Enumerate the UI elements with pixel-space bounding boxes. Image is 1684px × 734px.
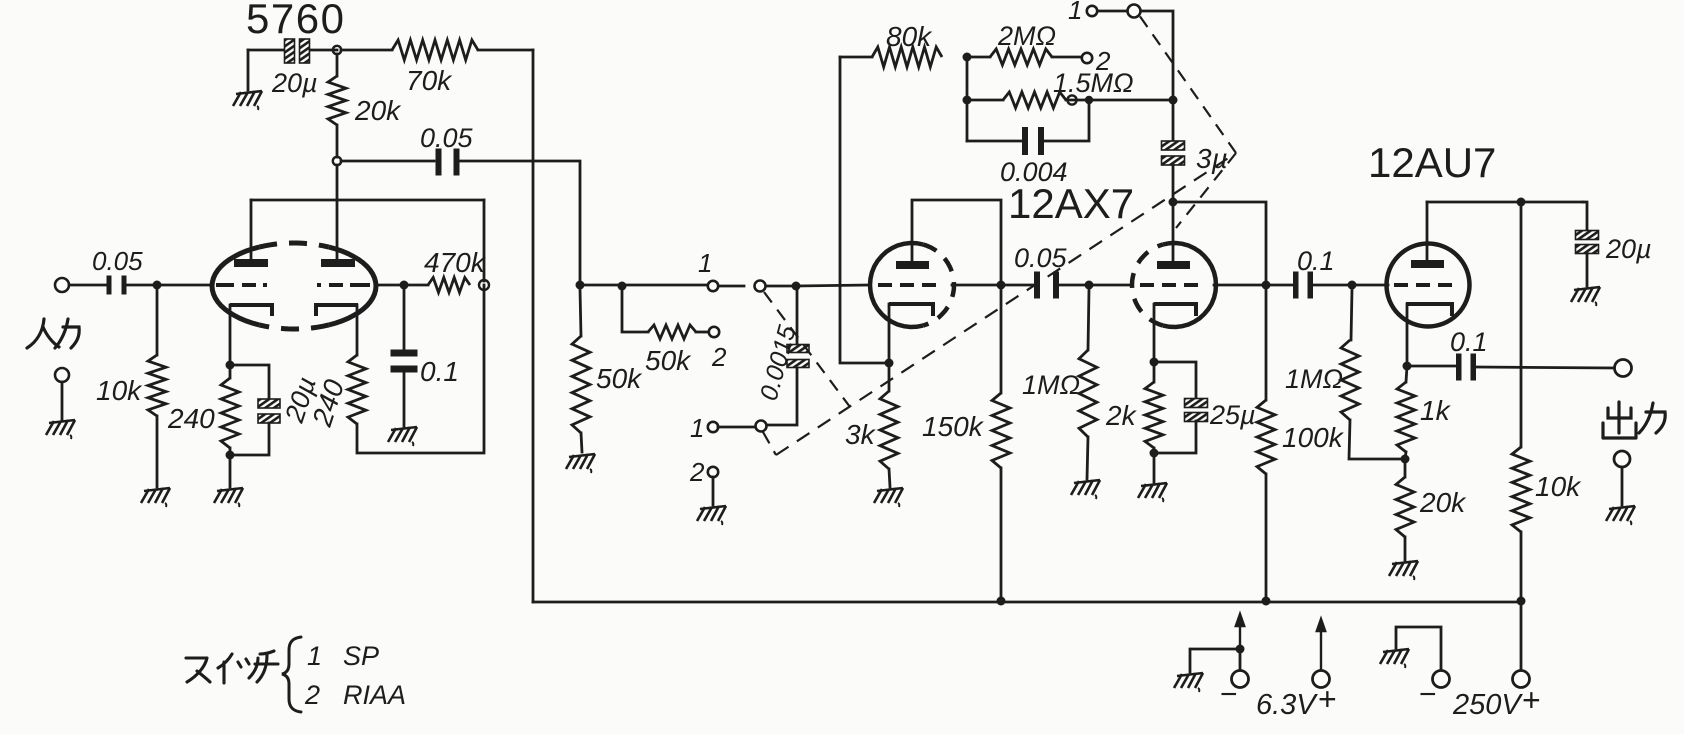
- label minus 6.3V: [1220, 678, 1238, 711]
- tube 12AX7-2 cathode: [1154, 304, 1196, 316]
- label legend 2: [304, 680, 320, 710]
- wire grid into 12AX7-1: [796, 285, 868, 286]
- wire 1M-1 bottom lead: [1087, 437, 1088, 479]
- resistor 50k (series, pos 2): [648, 325, 696, 339]
- capacitor C 0.05 (interstage): [1034, 272, 1059, 299]
- label 10k-2 value: [1535, 471, 1582, 502]
- svg-text:80k: 80k: [886, 21, 933, 52]
- switch contact upper pos 2: [709, 327, 719, 337]
- wire 0.004 left link: [967, 140, 1021, 143]
- wire 0.004 right link: [1045, 104, 1089, 141]
- label 0.0015 value: [755, 322, 802, 403]
- tube 5760 grid 2: [317, 283, 370, 287]
- node N8 grid2 node: [400, 281, 409, 290]
- svg-text:6.3V: 6.3V: [1256, 689, 1318, 721]
- label 2 (feedback): [1095, 46, 1111, 76]
- terminal output jack signal: [1615, 360, 1632, 377]
- tube 5760 envelope: [212, 243, 376, 329]
- wire stage1 plate link (box top): [251, 199, 484, 202]
- label 1.5M value: [1053, 68, 1134, 98]
- wire grid into 12AX7-2: [1089, 284, 1130, 287]
- resistor 2k: [1145, 382, 1163, 448]
- wire heater gnd link: [1190, 649, 1236, 672]
- svg-text:12AX7: 12AX7: [1008, 180, 1134, 227]
- resistor 240 (cathode 2): [348, 355, 366, 424]
- label 2M value: [997, 21, 1056, 51]
- label 6.3V: [1256, 689, 1318, 721]
- wire 10k bottom lead: [156, 416, 159, 487]
- resistor 10k: [148, 355, 166, 416]
- capacitor C 0.1 (stage1): [391, 350, 418, 373]
- svg-text:70k: 70k: [406, 65, 453, 96]
- svg-text:1k: 1k: [1420, 395, 1452, 426]
- wire grid bus segment: [580, 284, 708, 287]
- wire linkage to top arm (dashed linkage): [1139, 15, 1236, 153]
- capacitor C 20u (stage1 screen): [285, 39, 310, 63]
- wire 25u top link: [1154, 362, 1196, 399]
- node heater node: [1236, 645, 1245, 654]
- wire plate to decouple node: [1427, 201, 1583, 204]
- svg-text:1MΩ: 1MΩ: [1285, 364, 1343, 394]
- wire 20u-3 top lead: [1583, 202, 1587, 231]
- wire 240-2 bottom to box: [357, 285, 484, 453]
- node N7 240-1 bottom node: [226, 451, 235, 460]
- label 20k value: [354, 95, 402, 126]
- label output (shutsuryoku): [1603, 402, 1665, 438]
- svg-text:0.1: 0.1: [1450, 327, 1488, 357]
- resistor 20k: [328, 76, 346, 125]
- node N6 cathode1 node: [226, 361, 235, 370]
- wire lower pos1 link: [718, 426, 755, 429]
- label switch legend (suitchi): [186, 651, 278, 683]
- label 240 value (cathode1): [167, 403, 215, 434]
- wire 0.1-2 right lead: [1314, 284, 1348, 287]
- label 20u-3 value: [1605, 234, 1652, 264]
- wire 20u cap left lead: [248, 49, 284, 52]
- wire 20u-3 gnd lead: [1586, 253, 1589, 286]
- svg-text:0.05: 0.05: [1014, 243, 1068, 273]
- ground G3 for 10k: [141, 488, 170, 507]
- terminal input jack signal: [55, 278, 69, 292]
- label tube type 12AX7: [1008, 180, 1134, 227]
- node N13 cathode-80k node: [885, 359, 894, 368]
- ground G15 1M-1: [1071, 480, 1100, 499]
- wire 0.0015 top lead: [796, 290, 799, 344]
- node N27 cathode out node: [1403, 362, 1412, 371]
- label 0.1-1 value: [420, 356, 459, 387]
- wire 150k bottom lead: [1000, 468, 1003, 601]
- wire 2k gnd lead: [1153, 457, 1156, 482]
- wire 1M-2 bottom lead: [1349, 420, 1401, 459]
- label legend RIAA: [343, 680, 406, 710]
- label 100k value: [1282, 422, 1345, 453]
- wire 3k top lead: [888, 367, 891, 391]
- label legend 1: [307, 641, 322, 671]
- svg-text:1: 1: [1068, 0, 1082, 25]
- wire 2M right lead: [1052, 56, 1081, 59]
- tube 5760 cathode 2: [316, 305, 358, 316]
- resistor 1M (12AU7 grid): [1341, 340, 1359, 420]
- label plus 6.3V: [1318, 681, 1337, 717]
- ground G10 20u-3: [1571, 287, 1600, 306]
- svg-text:240: 240: [167, 403, 215, 434]
- heater pin arrow 1: [1236, 614, 1244, 645]
- svg-text:0.1: 0.1: [420, 356, 459, 387]
- svg-text:2: 2: [304, 680, 320, 710]
- label plus 250V: [1522, 682, 1541, 718]
- wire 240-1 gnd lead: [229, 459, 232, 487]
- node N10 12AX7 grid node: [792, 282, 801, 291]
- ground G1 for 20u: [233, 91, 262, 110]
- svg-text:20µ: 20µ: [271, 68, 318, 98]
- node N19 100k plate node: [1262, 281, 1271, 290]
- ground G13 heater minus: [1174, 673, 1203, 692]
- wire grid2 line exit: [1214, 284, 1262, 287]
- wire B+ bus: [533, 601, 1521, 604]
- capacitor C 3u: [1162, 141, 1185, 165]
- switch contact feedback pos 1: [1087, 6, 1097, 16]
- wire 20k bottom lead: [336, 125, 339, 157]
- node N23 2k bottom node: [1150, 449, 1159, 458]
- wire 10k top lead: [1520, 202, 1523, 447]
- ground G14 250V minus: [1380, 649, 1409, 668]
- wire 1.5M right lead: [1066, 99, 1170, 102]
- svg-text:−: −: [1220, 678, 1238, 711]
- wire grid line to plate node: [952, 284, 1001, 287]
- wire 20k-2 top lead: [1404, 463, 1407, 477]
- wire 0.05-2 right lead: [1057, 284, 1085, 287]
- svg-text:50k: 50k: [596, 363, 643, 394]
- label 0.004 value: [1000, 157, 1068, 187]
- wire feedback pos1 stub: [1098, 10, 1127, 13]
- wire 0.1-2 left lead: [1270, 284, 1292, 287]
- node N19b 1M grid node: [1085, 281, 1094, 290]
- node N21 100k bus node: [1262, 597, 1271, 606]
- terminal 6.3V + terminal: [1313, 671, 1330, 688]
- wire 20u-2 bottom link: [234, 423, 269, 455]
- node N22 cathode2 node: [1150, 358, 1159, 367]
- tube 12AX7-2 grid: [1140, 283, 1198, 287]
- wire 20k top lead: [336, 54, 339, 76]
- wire feedback arm to 3u line: [1141, 11, 1173, 96]
- wire 50k top lead: [580, 289, 581, 336]
- label tube type 5760: [246, 0, 345, 42]
- tube 12AX7-2 plate: [1157, 261, 1190, 269]
- svg-text:470k: 470k: [424, 247, 487, 278]
- wire upper contact stub: [719, 285, 744, 288]
- label legend SP: [343, 641, 379, 671]
- wire 12AX7-2 cathode lead: [1153, 304, 1156, 360]
- wire 0.05-2 left lead: [1005, 284, 1036, 287]
- node N16 1.5M end junction: [1067, 95, 1076, 104]
- resistor 240 (cathode 1): [221, 378, 239, 448]
- wire 50k-2 right lead: [696, 331, 708, 334]
- svg-text:1: 1: [698, 248, 712, 278]
- svg-text:RIAA: RIAA: [343, 680, 406, 710]
- capacitor C 0.1 (output): [1456, 354, 1476, 381]
- node N14 80k-2M node: [963, 53, 972, 62]
- capacitor C 0.0015: [787, 345, 809, 368]
- node N25 10k bus node: [1517, 597, 1526, 606]
- label tube type 12AU7: [1368, 139, 1496, 186]
- wire 2M left lead: [967, 56, 990, 59]
- wire cathode2 lead: [356, 305, 359, 355]
- wire cathode to 80k riser: [840, 57, 889, 363]
- switch contact lower arm: [756, 421, 767, 432]
- resistor 70k: [392, 40, 478, 60]
- wire 10k top lead: [156, 289, 159, 355]
- label 50k series value: [645, 345, 692, 376]
- wire 12AU7 plate lead: [1426, 202, 1429, 260]
- label 80k value: [886, 21, 933, 52]
- wire 20u cap right lead: [310, 49, 337, 52]
- wire 0.0015 bottom lead: [767, 368, 797, 425]
- wire 12AU7 cathode lead: [1406, 304, 1409, 364]
- wire 0.1-1 top lead: [403, 289, 406, 349]
- wire lower pos2 gnd lead: [712, 477, 715, 505]
- svg-text:0.05: 0.05: [92, 246, 143, 276]
- legend brace: [282, 637, 301, 712]
- label 1 (feedback): [1068, 0, 1082, 25]
- tube 12AU7 envelope: [1387, 244, 1470, 327]
- wire N2 down to plate2: [336, 165, 339, 260]
- node N18 12AX7-2 plate node: [1169, 198, 1178, 207]
- label 2 (lower pos2): [689, 457, 705, 487]
- label 1M-2 value: [1285, 364, 1343, 394]
- wire 50k bottom lead: [581, 433, 582, 452]
- switch contact lower pos 2: [708, 467, 718, 477]
- ground G4 240-1: [214, 488, 243, 507]
- svg-text:25µ: 25µ: [1209, 400, 1256, 430]
- node N3 50k node: [576, 281, 585, 290]
- resistor 470k: [428, 278, 470, 293]
- ground G6 50k: [566, 454, 595, 473]
- wire 70k left lead: [341, 49, 392, 52]
- switch contact upper arm: [755, 281, 766, 292]
- svg-text:0.05: 0.05: [420, 123, 474, 153]
- svg-text:10k: 10k: [96, 375, 143, 406]
- label 2k value: [1105, 400, 1138, 431]
- ground G9 2k: [1138, 483, 1167, 502]
- label 0.05 value: [420, 123, 474, 153]
- tube 5760 plate 1: [234, 259, 268, 267]
- terminal 250V - terminal: [1433, 671, 1450, 688]
- ground G11 20k-2: [1389, 561, 1418, 580]
- resistor 20k (cathode): [1396, 477, 1414, 537]
- svg-text:5760: 5760: [246, 0, 345, 42]
- capacitor C 0.1 (to 12AU7): [1293, 272, 1313, 299]
- svg-text:20k: 20k: [354, 95, 402, 126]
- wire 1k bottom lead: [1405, 452, 1406, 459]
- label 240-2 value: [306, 375, 350, 430]
- tube 5760 grid 1: [216, 283, 267, 287]
- label 0.05 input value: [92, 246, 143, 276]
- svg-text:2MΩ: 2MΩ: [997, 21, 1056, 51]
- label 2 (upper pos2): [711, 342, 727, 372]
- capacitor C 0.004: [1022, 127, 1044, 155]
- tube 12AX7-1 cathode: [889, 304, 933, 316]
- wire 1.5M left lead: [967, 99, 1003, 102]
- resistor 3k: [880, 391, 898, 469]
- wire 3k bottom lead: [889, 469, 890, 487]
- label 250V: [1452, 689, 1523, 721]
- wire grid wire into 5760: [157, 284, 213, 287]
- svg-text:1MΩ: 1MΩ: [1022, 370, 1080, 400]
- svg-text:3k: 3k: [845, 419, 877, 450]
- ground G12 output: [1606, 506, 1635, 525]
- svg-text:1.5MΩ: 1.5MΩ: [1053, 68, 1134, 98]
- terminal input jack ground: [55, 368, 69, 382]
- svg-text:20k: 20k: [1419, 487, 1467, 518]
- wire 3u top lead: [1172, 104, 1175, 141]
- node N17 3u top node: [1169, 96, 1178, 105]
- terminal output jack ground: [1614, 451, 1630, 467]
- switch contact feedback arm: [1128, 5, 1141, 18]
- switch contact lower pos 1: [708, 422, 718, 432]
- resistor 150k: [992, 393, 1010, 468]
- wire 10k bottom lead: [1520, 532, 1523, 601]
- wire 100k top lead: [1265, 285, 1268, 400]
- resistor 1k: [1397, 382, 1415, 452]
- wire linkage lower arm (dashed linkage): [763, 432, 776, 455]
- tube 12AX7 triode 1 envelope: [870, 243, 954, 327]
- wire 80k left lead: [840, 56, 872, 59]
- wire 1k top lead: [1406, 366, 1407, 382]
- wire 0.05 right lead to grid drop: [460, 161, 580, 281]
- svg-text:250V: 250V: [1452, 689, 1523, 721]
- label 50k shunt value: [596, 363, 643, 394]
- resistor 1.5M: [1003, 92, 1066, 108]
- wire grid2 exit wire: [376, 284, 404, 287]
- label 10k value: [96, 375, 143, 406]
- tube 5760 plate 2: [321, 259, 355, 267]
- wire 250V gnd link: [1396, 627, 1441, 670]
- wire input to 0.05in: [69, 284, 106, 287]
- wire 12AX7-1 plate lead: [912, 200, 1001, 281]
- wire 50k-2 branch drop: [622, 286, 648, 332]
- label 20u value: [271, 68, 318, 98]
- heater pin arrow 2: [1317, 619, 1325, 670]
- label 20u-2 value: [279, 373, 322, 427]
- label input (nyuuryoku): [27, 319, 79, 348]
- wire 70k right lead to B+ drop: [478, 49, 533, 52]
- ground G7 lower pos2: [697, 506, 726, 525]
- svg-text:2k: 2k: [1105, 400, 1138, 431]
- svg-text:SP: SP: [343, 641, 379, 671]
- wire 20u cap ground drop: [247, 50, 250, 90]
- resistor 100k: [1257, 400, 1275, 474]
- svg-text:10k: 10k: [1535, 471, 1582, 502]
- wire upper arm to grid: [766, 285, 796, 288]
- wire 0.1-3 right lead: [1477, 367, 1614, 368]
- wire heater terminal lead: [1239, 653, 1242, 670]
- label 20k-2 value: [1419, 487, 1467, 518]
- wire 470k left lead: [404, 284, 428, 287]
- wire plate1 lead up: [250, 200, 253, 259]
- wire 0.05in to grid node: [127, 284, 157, 287]
- svg-text:+: +: [1522, 682, 1541, 718]
- terminal 6.3V - terminal: [1232, 671, 1249, 688]
- ground G2 input: [46, 420, 75, 439]
- tube 5760 cathode 1: [230, 305, 272, 316]
- wire linkage main (dashed linkage): [776, 153, 1236, 455]
- capacitor C 20u (cathode bypass): [258, 399, 280, 423]
- resistor 80k: [872, 47, 942, 67]
- wire 1M-1 top lead: [1088, 289, 1089, 350]
- wire 2k top lead: [1153, 362, 1156, 382]
- svg-text:12AU7: 12AU7: [1368, 139, 1496, 186]
- wire 150k top lead: [1000, 285, 1003, 393]
- node N1 20u-70k-20k junction: [333, 46, 341, 54]
- wire 2k bottom lead: [1153, 448, 1156, 453]
- wire cathode1 lead: [229, 305, 232, 363]
- node N5 input grid node: [153, 281, 162, 290]
- wire 0.05 left lead: [341, 160, 434, 163]
- tube 12AX7-1 plate: [896, 261, 929, 269]
- wire box right drop to 470k node: [483, 200, 486, 281]
- label 1k value: [1420, 395, 1452, 426]
- svg-text:50k: 50k: [645, 345, 692, 376]
- node N11 12AX7-1 plate node: [997, 281, 1006, 290]
- svg-text:1: 1: [690, 413, 704, 443]
- wire 100k bottom lead: [1265, 474, 1268, 601]
- wire output gnd stub: [1621, 467, 1624, 505]
- label 70k value: [406, 65, 453, 96]
- resistor 50k (shunt): [572, 336, 590, 433]
- node N16b 0.004 riser junction: [1085, 96, 1093, 104]
- label 0.1-3 value: [1450, 327, 1488, 357]
- wire 240-1 bottom lead: [229, 448, 232, 455]
- node N20 12AU7 grid node: [1348, 281, 1357, 290]
- svg-text:2: 2: [711, 342, 727, 372]
- svg-text:150k: 150k: [922, 411, 985, 442]
- wire 1M-2 top lead: [1351, 289, 1352, 340]
- node N9 50k-2 branch node: [618, 282, 627, 291]
- wire 25u bottom link: [1158, 421, 1196, 453]
- node N24 plate supply node: [1517, 198, 1526, 207]
- capacitor C 25u: [1185, 399, 1208, 422]
- tube 12AU7 plate: [1411, 260, 1444, 268]
- svg-text:1: 1: [307, 641, 322, 671]
- resistor 10k (decoupling): [1512, 447, 1530, 532]
- wire 20k-2 bottom lead: [1404, 537, 1407, 560]
- svg-text:3µ: 3µ: [1196, 143, 1228, 174]
- switch contact feedback pos 2: [1082, 53, 1092, 63]
- label 0.05-2 value: [1014, 243, 1068, 273]
- node N4 470k-box junction: [479, 280, 489, 290]
- svg-text:2: 2: [689, 457, 705, 487]
- wire linkage to 12AX7-2 (dashed linkage): [1176, 153, 1236, 228]
- wire 0.1-3 left lead: [1411, 365, 1455, 368]
- switch contact upper pos 1: [708, 281, 718, 291]
- label 3u value: [1196, 143, 1228, 174]
- wire B+ feed vertical (70k to bus): [532, 50, 535, 602]
- label 25u value: [1209, 400, 1256, 430]
- svg-text:20µ: 20µ: [1605, 234, 1652, 264]
- wire 3u bottom lead: [1172, 165, 1175, 198]
- label 470k value: [424, 247, 487, 278]
- label 3k value: [845, 419, 877, 450]
- resistor 2M: [990, 49, 1052, 65]
- capacitor C 20u (decoupling): [1576, 231, 1599, 254]
- label 1 (lower pos1): [690, 413, 704, 443]
- wire 240-1 top lead: [229, 369, 232, 378]
- wire 0.1-1 gnd lead: [403, 372, 406, 426]
- svg-text:−: −: [1419, 678, 1437, 711]
- label 1 (upper pos1): [698, 248, 712, 278]
- capacitor C 0.05 (stage1 out): [436, 149, 460, 176]
- node N26 1k-20k node: [1401, 455, 1410, 464]
